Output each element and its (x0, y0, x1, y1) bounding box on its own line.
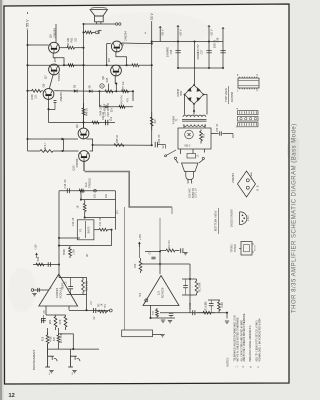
svg-text:ALL CAPACITORS ARE RATED IN: ALL CAPACITORS ARE RATED IN MFD (240, 320, 243, 362)
svg-text:2N5986: 2N5986 (75, 158, 79, 168)
svg-text:WITH 5 %, UNLESS NOTED OTH: WITH 5 %, UNLESS NOTED OTHERWISE. (238, 316, 240, 361)
svg-text:1.: 1. (235, 365, 238, 367)
svg-text:R50 100: R50 100 (66, 37, 70, 48)
svg-text:R10: R10 (134, 263, 137, 268)
resistor R10 (139, 258, 142, 273)
junction fb (189, 278, 191, 280)
TP1 stub (108, 310, 110, 312)
wire to footswitch box (124, 207, 126, 330)
wire r19 top (58, 328, 60, 335)
ground jack2 (72, 371, 76, 373)
transistor Q6 (111, 41, 122, 52)
svg-text:INSTRUMENT: INSTRUMENT (32, 350, 36, 371)
wire +62 line (177, 26, 179, 68)
svg-text:50/60 Hz: 50/60 Hz (191, 187, 195, 198)
junction op2 bl (149, 317, 151, 319)
svg-text:R24: R24 (36, 256, 40, 261)
svg-text:C14 .05: C14 .05 (99, 217, 102, 226)
AC plug (182, 163, 199, 184)
resistor R15 15K (197, 311, 215, 314)
wire Q5 emitter to bus (53, 53, 64, 65)
svg-text:C23 .05: C23 .05 (157, 134, 161, 144)
svg-text:Q7: Q7 (44, 75, 48, 79)
test point TP1 (109, 309, 112, 312)
svg-text:470K: 470K (51, 336, 53, 342)
wire cluster left (98, 91, 100, 107)
transformer T1 secondary (183, 115, 206, 117)
resistor R53 100 (127, 64, 152, 67)
wire Q6 collector (122, 42, 152, 45)
arrow +62V b (221, 27, 224, 29)
svg-text:2.2M: 2.2M (222, 302, 224, 307)
junction bus2 x209 (208, 67, 210, 69)
svg-text:1K: 1K (76, 205, 80, 208)
resistor R15a (98, 310, 109, 313)
junction rail Q5 base (26, 44, 28, 46)
svg-text:47K: 47K (54, 336, 56, 341)
junction y264 (58, 263, 60, 265)
wire -62 line (208, 26, 210, 68)
wire Q6b base (28, 138, 79, 140)
wire op1 minus input (33, 289, 49, 291)
op-amp U1 CA3094 (39, 274, 78, 306)
junction x84 y122 (82, 121, 84, 123)
svg-text:D8: D8 (73, 84, 77, 88)
svg-text:BASS: BASS (87, 226, 91, 233)
svg-text:R12 47K: R12 47K (168, 240, 171, 250)
wire -55 stub (159, 27, 161, 42)
svg-text:−55 V: −55 V (161, 29, 165, 36)
wire bridge bottom (193, 104, 195, 115)
resistor R40 4.7 (28, 150, 63, 153)
junction fb out (85, 309, 87, 311)
svg-text:R45: R45 (105, 77, 109, 82)
capacitor C10 2.2MFD (94, 308, 96, 313)
connector speaker return (95, 31, 98, 34)
svg-text:(C): (C) (117, 210, 119, 213)
wire box leg3 (204, 149, 206, 153)
switch S2 (166, 150, 176, 156)
svg-text:S1A: S1A (84, 182, 88, 187)
svg-text:2N6254: 2N6254 (124, 31, 128, 41)
junction rail y139 (26, 138, 28, 140)
transistor Q9 (43, 89, 54, 100)
wire Q8 emitter leg2 (115, 84, 117, 92)
svg-text:B · E: B · E (258, 185, 260, 191)
footswitch box (122, 330, 153, 337)
svg-text:4 OHM LOAD, 1 MV ACROSS R53 &: 4 OHM LOAD, 1 MV ACROSS R53 & R54. (259, 318, 262, 362)
wire y245 row (59, 245, 112, 247)
capacitor C27 2000MFD (206, 51, 211, 53)
wire base link (63, 139, 65, 151)
resistor R13 68K (195, 279, 198, 295)
connector J3 speaker jack (115, 23, 121, 25)
wire jack1 up (47, 344, 49, 356)
junction bus x126 (125, 64, 127, 66)
ground mid (168, 321, 172, 323)
resistor R57 10 (119, 105, 125, 108)
resistor R55 1 OHM (122, 90, 129, 93)
svg-text:TIP30C: TIP30C (234, 244, 237, 253)
resistor R21 2.2M (82, 278, 85, 295)
wire top of pair (208, 299, 220, 301)
svg-text:TREBLE: TREBLE (88, 178, 92, 188)
wire pins join (46, 314, 66, 316)
capacitor C30 (220, 131, 222, 135)
resistor R14 2.2M (218, 300, 221, 313)
ground foot (160, 335, 164, 337)
wire op1 pin4 (45, 306, 47, 315)
svg-text:R42 47K: R42 47K (121, 95, 124, 105)
arrow -62V (207, 25, 210, 27)
label TOP VIEW underline (228, 86, 230, 104)
wire zobel (93, 144, 152, 146)
junction rail-R51 (82, 31, 84, 33)
transistor Q7 (49, 64, 60, 75)
resistor R22 560K (69, 246, 72, 258)
svg-text:R20: R20 (50, 319, 52, 324)
svg-text:47K: 47K (127, 97, 130, 102)
svg-text:2N5210-2N5087: 2N5210-2N5087 (231, 208, 234, 227)
terminal t1 (174, 157, 176, 159)
resistor R51 2 OHM (84, 31, 96, 34)
svg-text:BOTTOM VIEW: BOTTOM VIEW (214, 210, 218, 231)
svg-text:680PF: 680PF (63, 282, 65, 289)
junction bridge bottom (193, 110, 195, 112)
junction out right (226, 312, 228, 314)
wire +62b line (222, 28, 224, 68)
svg-text:C19: C19 (111, 116, 113, 121)
svg-text:C20 680PF: C20 680PF (102, 103, 106, 116)
svg-text:C22 10MFD: C22 10MFD (106, 103, 110, 117)
wire mid row (81, 199, 116, 201)
TO-220 case bottom view (239, 242, 254, 256)
wire fb rail top (182, 278, 197, 280)
svg-text:▼: ▼ (236, 108, 238, 111)
svg-text:1A: 1A (197, 154, 200, 157)
svg-text:C27: C27 (200, 49, 204, 54)
wire C30 hook (232, 134, 234, 139)
ground jack1 (49, 371, 53, 373)
wire shielded run (85, 172, 173, 208)
svg-text:E B C: E B C (248, 215, 250, 221)
svg-text:4.7/35: 4.7/35 (190, 302, 192, 309)
junction y245 (58, 245, 60, 247)
svg-text:2.: 2. (242, 365, 245, 367)
svg-text:R44 3.9K: R44 3.9K (99, 104, 103, 115)
fuse F1 (187, 154, 196, 159)
wire Q6b-Q10 link (87, 139, 93, 151)
junction Q5e bus (63, 64, 65, 66)
capacitor C7 (151, 257, 155, 259)
wire low row (85, 217, 116, 219)
svg-text:NE-2: NE-2 (185, 144, 191, 148)
capacitor C17 (54, 101, 57, 110)
svg-text:+ 55 V: + 55 V (26, 19, 30, 30)
ground out (225, 321, 229, 323)
svg-text:RC4558: RC4558 (161, 287, 165, 298)
wire bridge right leg (204, 95, 208, 115)
transistor Q5 (49, 42, 60, 53)
wire jack2 up (70, 349, 72, 355)
wire fb top stub (58, 274, 60, 278)
svg-text:D9: D9 (88, 85, 92, 89)
junction q8 leg (115, 83, 117, 85)
svg-text:Q6: Q6 (75, 124, 79, 128)
svg-text:Q8: Q8 (101, 76, 105, 80)
transformer T1 primary (184, 125, 206, 127)
svg-text:R38: R38 (55, 57, 57, 62)
wire tone right vert (115, 191, 117, 230)
wire feedback bottom rail (67, 294, 87, 296)
wire Q8 down (114, 76, 116, 84)
junction y151 x62 (61, 150, 63, 152)
svg-text:Q10: Q10 (72, 165, 76, 171)
svg-text:C16 .02: C16 .02 (63, 179, 67, 189)
wire out hook (226, 313, 228, 319)
svg-text:2000/75: 2000/75 (214, 39, 216, 48)
capacitor C9b 4.7MFD (193, 310, 195, 315)
scan left edge strip (0, 0, 2, 400)
TO-3 case 2N6254 bottom view (238, 171, 256, 197)
svg-text:+62 V: +62 V (179, 29, 183, 36)
resistor R48 390 (92, 121, 99, 124)
capacitor C16 (67, 188, 69, 193)
resistor R23 1K (83, 200, 86, 218)
svg-text:2000MFD: 2000MFD (168, 47, 170, 57)
ground op1 input (32, 294, 36, 296)
svg-text:2N6254: 2N6254 (231, 173, 235, 183)
capacitor C26 2000MFD (175, 51, 180, 53)
svg-text:TOP VIEW: TOP VIEW (224, 88, 228, 102)
transistor Q10 driver (79, 151, 90, 162)
junction rail Q9 base (26, 90, 28, 92)
wire op1 feedback (59, 278, 87, 310)
svg-text:C26: C26 (169, 49, 173, 54)
resistor R25 (94, 228, 112, 231)
wire op1 in row (33, 264, 59, 266)
svg-text:R18: R18 (43, 336, 45, 341)
svg-text:+15V: +15V (35, 244, 38, 250)
wire op1 pin5 (68, 306, 70, 310)
junction bus x107 (106, 64, 108, 66)
junction Q9e (47, 108, 49, 110)
wire to plug right (199, 160, 203, 164)
resistor R20 1K (54, 315, 57, 330)
wire bias row (54, 90, 99, 93)
svg-text:CA3094: CA3094 (55, 288, 59, 298)
svg-text:R36 10: R36 10 (115, 134, 119, 143)
wire y238 branch (59, 237, 80, 239)
wire supply bus y68 (178, 67, 223, 69)
capacitor C8b (181, 248, 183, 253)
wire -55V rail (151, 21, 153, 145)
junction x111 y229 (110, 229, 112, 231)
terminal t2 (202, 157, 204, 159)
svg-text:1/2W: 1/2W (74, 248, 76, 254)
resistor R12 (160, 249, 180, 252)
svg-text:1Ω: 1Ω (34, 95, 38, 98)
input jack J2 (68, 355, 80, 367)
wire op2 out bottom (160, 312, 227, 314)
wire mid vert (80, 191, 82, 199)
wire op2 pin left (150, 306, 152, 319)
resistor R18 470K (46, 333, 49, 356)
junction rail bus left (26, 64, 28, 66)
junction bus2 x223 (222, 67, 224, 69)
svg-text:P-8609: P-8609 (172, 115, 176, 124)
wire C30 right (222, 133, 233, 135)
capacitor C vert (209, 300, 214, 313)
svg-text:C30 .05: C30 .05 (217, 123, 219, 132)
resistor R24 (36, 263, 44, 266)
svg-text:RC4558: RC4558 (230, 91, 234, 102)
wire Q5 collector up (55, 24, 57, 42)
wire preamp feed vertical (159, 218, 161, 252)
junction bus x152 (151, 40, 153, 42)
wire input row (48, 348, 99, 350)
resistor R39 150 (28, 89, 43, 92)
svg-text:THOR 8/35 AMPLIFIER SCHEMATIC: THOR 8/35 AMPLIFIER SCHEMATIC DIAGRAM (B… (292, 123, 298, 313)
junction y264 op2 (159, 263, 161, 265)
thermistor RT1 circle (100, 84, 104, 88)
svg-text:R47: R47 (153, 118, 157, 123)
wire cluster top (99, 90, 133, 92)
wire y251 row (145, 251, 160, 253)
wire foot box right (153, 334, 162, 336)
svg-text:12: 12 (9, 393, 15, 399)
resistor R58 (200, 130, 203, 144)
wire box leg2 (192, 149, 194, 154)
junction op1 out y238 (58, 237, 60, 239)
svg-text:C·CASE: C·CASE (250, 171, 253, 180)
resistor R50 100 (60, 46, 84, 49)
resistor R47 on rail (150, 112, 153, 130)
svg-text:TP2: TP2 (140, 292, 142, 297)
wire box leg1 (180, 149, 182, 154)
wire op1 out bottom (69, 310, 110, 312)
junction preamp node (159, 250, 161, 252)
wire op2 bottom row (151, 317, 176, 319)
svg-text:R21 2.2M: R21 2.2M (87, 281, 89, 291)
svg-text:AND 50 VOLT, UNLESS NOTED OTHE: AND 50 VOLT, UNLESS NOTED OTHERWISE. (243, 313, 246, 362)
capacitor C1 (42, 318, 44, 323)
wire Q8 emitter legs (108, 84, 110, 92)
wire op2 fb right (189, 264, 191, 313)
svg-text:2N6254: 2N6254 (59, 92, 63, 102)
junction R50 rail (82, 47, 84, 49)
bridge rectifier BR1 (184, 84, 205, 105)
wire Q7 emitter down (49, 74, 53, 88)
svg-text:2000MFD 75V: 2000MFD 75V (198, 44, 200, 59)
input jack J1 (45, 355, 57, 367)
label BOTTOM VIEW underline (217, 208, 219, 234)
junction rail y65 (151, 64, 153, 66)
svg-text:4.6K: 4.6K (60, 319, 62, 324)
wire y264 row (141, 263, 191, 265)
wire shield tail (171, 207, 173, 214)
resistor R52 100 (64, 64, 84, 67)
svg-text:R13 68K: R13 68K (200, 282, 202, 291)
transformer T1 core (182, 119, 207, 121)
wire Q5 base (28, 44, 49, 46)
capacitor C28 2000MFD (220, 51, 225, 53)
IC U3 DIP top view 2 (238, 111, 259, 127)
resistor R26 (79, 189, 84, 192)
wire fb rail bottom (182, 294, 197, 296)
wire op2 feed (159, 252, 161, 275)
wire r18 top (47, 328, 49, 335)
junction cluster tr (132, 90, 134, 92)
svg-text:B C E: B C E (255, 245, 257, 251)
capacitor C5 (41, 315, 46, 321)
arrow -55V feed (159, 26, 162, 28)
junction rail y145 (151, 144, 153, 146)
junction bus x194 (193, 40, 195, 42)
wire box to C30 (211, 133, 219, 135)
wire Q10 emitter (83, 162, 85, 172)
wire bridge left leg (184, 95, 186, 115)
resistor R19b (64, 315, 67, 330)
wire emitter run to driver (49, 122, 116, 124)
pot wiper treble (94, 189, 97, 192)
transistor Q6b driver (78, 128, 89, 139)
resistor R36 10 (114, 144, 124, 147)
svg-text:INDICATES SIGNAL GROUND P.C: INDICATES SIGNAL GROUND P.C. (249, 324, 252, 361)
input node op1 (31, 289, 34, 292)
svg-text:△: △ (257, 366, 260, 368)
wire C17 join (49, 109, 56, 111)
lamp NE-2 (185, 130, 194, 139)
arrowhead base drive (62, 138, 66, 141)
test point on cluster (105, 106, 107, 108)
wire Q9 emitter down (48, 100, 50, 123)
TO-92 case bottom view (240, 212, 247, 225)
wire input net (59, 334, 74, 349)
svg-text:C13 .05: C13 .05 (72, 217, 75, 226)
svg-text:−62 V: −62 V (210, 29, 214, 36)
svg-text:VM648: VM648 (176, 88, 180, 97)
junction bus x178 (177, 40, 179, 42)
junction zobel tap (92, 144, 94, 146)
svg-text:Q9: Q9 (42, 83, 46, 87)
jack contact mark (98, 31, 102, 35)
capacitor C9 680PF (68, 278, 73, 295)
resistor R46 1K (82, 103, 85, 128)
svg-text:560K: 560K (62, 249, 66, 255)
wire to plug left (176, 159, 179, 163)
capacitor C fb (183, 279, 188, 295)
svg-text:− 55 V: − 55 V (150, 12, 154, 22)
junction low (84, 216, 86, 218)
svg-text:+15V: +15V (138, 234, 142, 240)
svg-text:S1 F1 1A: S1 F1 1A (195, 188, 198, 198)
svg-text:1K: 1K (102, 303, 104, 306)
wire tone top (59, 190, 116, 192)
wire R40 to base (63, 150, 79, 152)
svg-text:TP1: TP1 (105, 303, 107, 308)
capacitor C23 (155, 142, 165, 149)
wire op1 output rail (58, 191, 60, 274)
junction bus2 x178 (177, 67, 179, 69)
wire supply bus y41 (152, 41, 223, 43)
wire cluster bottom (99, 106, 133, 108)
wire Q6 emitter (116, 52, 127, 65)
resistor R16 100K (156, 308, 159, 318)
wire primary left (183, 125, 185, 129)
wire +55V rail vertical (27, 30, 29, 151)
wire rail x84 vertical (83, 24, 85, 128)
